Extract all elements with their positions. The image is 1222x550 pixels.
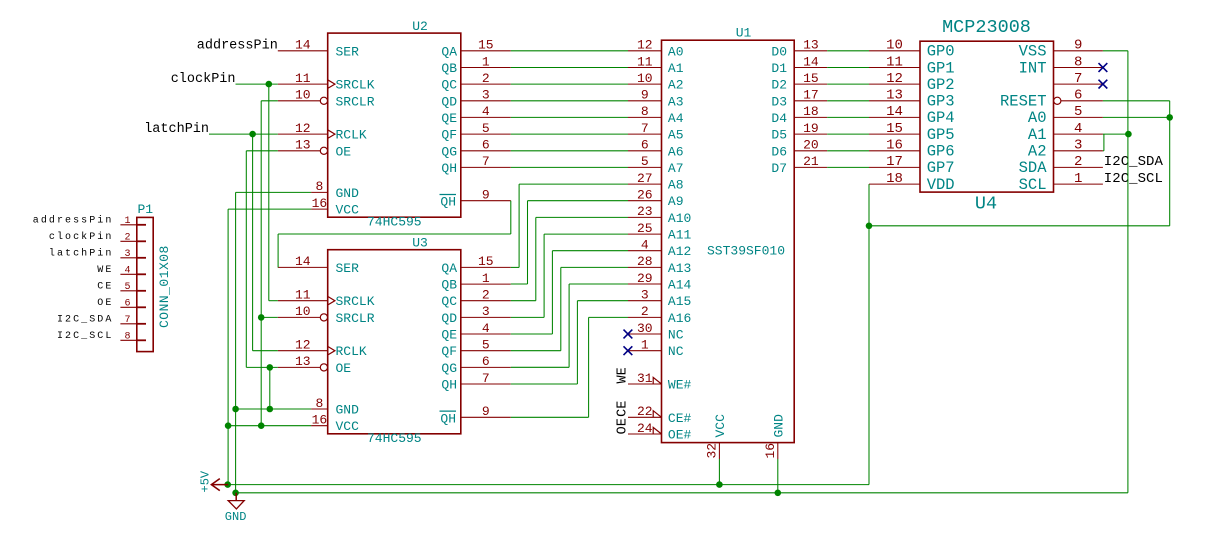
wire clockPin to U3 SRCLK bbox=[269, 300, 278, 302]
wire U3 GND horizontal bbox=[236, 408, 312, 410]
wire U2 QE to U1 A4 bbox=[511, 116, 628, 118]
junction U1 GND rail bbox=[775, 490, 782, 497]
svg-text:U3: U3 bbox=[412, 236, 428, 251]
svg-text:SCL: SCL bbox=[1019, 176, 1047, 194]
wire U3 QA horizontal bbox=[511, 266, 519, 268]
svg-text:addressPin: addressPin bbox=[197, 39, 278, 54]
U1 pin 28 A13 bbox=[628, 254, 691, 276]
svg-text:11: 11 bbox=[886, 54, 903, 70]
no-connect U4 pin 8 bbox=[1099, 63, 1108, 72]
U1 pin 16 GND bbox=[763, 414, 786, 459]
svg-text:OE: OE bbox=[97, 298, 113, 309]
svg-text:24: 24 bbox=[637, 421, 653, 436]
svg-text:A16: A16 bbox=[668, 311, 691, 326]
svg-text:32: 32 bbox=[705, 443, 720, 459]
wire U3 QC to U1 A10 bbox=[536, 216, 628, 218]
svg-text:12: 12 bbox=[295, 338, 311, 353]
U1 pin 19 D5 bbox=[771, 121, 827, 143]
svg-text:WE: WE bbox=[97, 265, 113, 276]
svg-text:QE: QE bbox=[441, 111, 457, 126]
U1 pin 14 D1 bbox=[771, 54, 827, 76]
U1 pin 2 A16 bbox=[628, 304, 691, 326]
junction VCC U3 row right bbox=[258, 422, 265, 429]
U4 pin 15 GP5 bbox=[869, 121, 955, 144]
wire U3 QH horizontal bbox=[511, 383, 578, 385]
svg-text:QG: QG bbox=[441, 361, 457, 376]
svg-text:A1: A1 bbox=[1028, 126, 1047, 144]
U1 pin 1 NC bbox=[628, 338, 684, 360]
svg-text:RCLK: RCLK bbox=[336, 128, 367, 143]
U4 pin 5 A0 bbox=[1028, 104, 1103, 127]
wire U3 QF to U1 A13 bbox=[561, 266, 628, 268]
svg-text:D4: D4 bbox=[771, 111, 787, 126]
svg-text:GP2: GP2 bbox=[927, 76, 955, 94]
svg-text:10: 10 bbox=[637, 71, 653, 86]
wire VDD tie horizontal bbox=[869, 225, 1170, 227]
junction latchPin/RCLK bbox=[249, 131, 256, 138]
U4 pin 3 A2 bbox=[1028, 138, 1103, 161]
svg-text:QH: QH bbox=[440, 411, 456, 426]
svg-text:QH: QH bbox=[440, 195, 456, 210]
svg-text:1: 1 bbox=[482, 271, 490, 286]
U1 pin 8 A4 bbox=[628, 104, 684, 126]
U1 pin 12 A0 bbox=[628, 38, 684, 60]
U3 value 74HC595 bbox=[367, 431, 422, 446]
net label WE (vertical) bbox=[616, 367, 631, 383]
svg-text:9: 9 bbox=[1074, 38, 1082, 54]
U1 pin 20 D6 bbox=[771, 138, 827, 160]
wire clockPin vertical bbox=[268, 84, 270, 301]
svg-text:1: 1 bbox=[1074, 171, 1082, 187]
svg-text:OE: OE bbox=[616, 418, 631, 434]
svg-text:15: 15 bbox=[478, 38, 494, 53]
P1 value CONN_01X08 bbox=[157, 245, 172, 328]
svg-text:5: 5 bbox=[124, 282, 130, 293]
U1 pin 23 A10 bbox=[628, 204, 691, 226]
svg-text:30: 30 bbox=[637, 321, 653, 336]
U1 pin 11 A1 bbox=[628, 54, 684, 76]
svg-text:19: 19 bbox=[803, 121, 819, 136]
svg-text:2: 2 bbox=[124, 232, 130, 243]
wire U2 VCC horizontal bbox=[228, 208, 311, 210]
svg-text:13: 13 bbox=[886, 88, 903, 104]
svg-text:3: 3 bbox=[641, 288, 649, 303]
U1 pin 31 WE# bbox=[628, 371, 692, 393]
wire U1 D0 to U4 GP0 bbox=[827, 50, 869, 52]
svg-text:A15: A15 bbox=[668, 294, 691, 309]
wire U3 VCC horizontal bbox=[228, 425, 311, 427]
wire U3 QF vertical bbox=[560, 267, 562, 350]
U4 pin 10 GP0 bbox=[869, 38, 955, 61]
U2 pin 5 QF bbox=[441, 121, 510, 143]
wire U2 QC to U1 A2 bbox=[511, 83, 628, 85]
U1 pin 5 A7 bbox=[628, 154, 684, 176]
wire latchPin to U3 RCLK bbox=[253, 350, 278, 352]
U1 pin 10 A2 bbox=[628, 71, 684, 93]
svg-text:MCP23008: MCP23008 bbox=[942, 17, 1031, 38]
svg-text:A9: A9 bbox=[668, 194, 684, 209]
U2 value 74HC595 bbox=[367, 214, 422, 229]
svg-text:12: 12 bbox=[637, 38, 653, 53]
svg-text:A2: A2 bbox=[1028, 143, 1047, 161]
svg-text:SER: SER bbox=[336, 44, 360, 59]
U4 pin 18 VDD bbox=[869, 171, 955, 194]
svg-text:A4: A4 bbox=[668, 111, 684, 126]
svg-text:QC: QC bbox=[441, 294, 457, 309]
U4 pin 17 GP7 bbox=[869, 154, 955, 177]
wire U3 QB vertical bbox=[527, 201, 529, 284]
P1 pin 8 bbox=[120, 331, 146, 342]
U2 pin 4 QE bbox=[441, 104, 510, 126]
wire U2 QH-bar to U3 SER bbox=[277, 234, 279, 267]
svg-text:5: 5 bbox=[1074, 104, 1082, 120]
svg-text:15: 15 bbox=[886, 121, 903, 137]
junction A1/VSS vertical bbox=[1125, 131, 1132, 138]
P1 pin 5 bbox=[120, 282, 146, 293]
svg-text:GND: GND bbox=[771, 414, 786, 438]
junction OE/GND bbox=[267, 406, 274, 413]
svg-text:I2C_SDA: I2C_SDA bbox=[1104, 154, 1164, 170]
U4 pin 1 SCL bbox=[1019, 171, 1103, 194]
net label I2C_SDA bbox=[1104, 154, 1164, 170]
U1 pin 18 D4 bbox=[771, 104, 827, 126]
svg-text:NC: NC bbox=[668, 328, 684, 343]
svg-text:14: 14 bbox=[803, 54, 819, 69]
svg-text:QC: QC bbox=[441, 78, 457, 93]
U3 pin 6 QG bbox=[441, 354, 510, 376]
U3 pin 4 QE bbox=[441, 321, 510, 343]
wire U3 QG horizontal bbox=[511, 366, 569, 368]
svg-text:9: 9 bbox=[482, 404, 490, 419]
svg-text:4: 4 bbox=[1074, 121, 1082, 137]
svg-text:6: 6 bbox=[482, 138, 490, 153]
U2 pin 9 QH-bar bbox=[440, 188, 511, 210]
svg-text:4: 4 bbox=[482, 104, 490, 119]
svg-text:10: 10 bbox=[295, 88, 311, 103]
junction SRCLR U3 bbox=[258, 314, 265, 321]
wire U3 QG to U1 A14 bbox=[569, 283, 628, 285]
P1 reference bbox=[138, 202, 154, 217]
svg-text:A11: A11 bbox=[668, 228, 692, 243]
svg-text:clockPin: clockPin bbox=[49, 231, 114, 243]
IC U2 74HC595 body bbox=[328, 33, 461, 217]
U2 pin 11 SRCLK bbox=[278, 71, 375, 93]
U4 pin 7 NC bbox=[1054, 71, 1103, 87]
svg-text:18: 18 bbox=[886, 171, 903, 187]
svg-text:74HC595: 74HC595 bbox=[367, 431, 422, 446]
svg-text:13: 13 bbox=[295, 138, 311, 153]
no-connect U1 pin 30 bbox=[624, 330, 633, 339]
wire U3 QH to U1 A15 bbox=[577, 300, 628, 302]
U1 pin 26 A9 bbox=[628, 188, 684, 210]
U3 pin 13 OE bbox=[278, 354, 352, 376]
wire U3 QH-bar horizontal bbox=[511, 416, 589, 418]
svg-text:QF: QF bbox=[441, 344, 457, 359]
wire U2 QH to U1 A7 bbox=[511, 166, 628, 168]
wire U2 GND horizontal bbox=[236, 191, 312, 193]
svg-text:1: 1 bbox=[482, 54, 490, 69]
wire U1 D6 to U4 GP6 bbox=[827, 150, 869, 152]
svg-text:D2: D2 bbox=[771, 78, 787, 93]
wire U4 VDD vertical bbox=[868, 184, 870, 226]
wire VDD down to +5V rail bbox=[868, 226, 870, 485]
U1 pin 6 A6 bbox=[628, 138, 684, 160]
wire U2 QB to U1 A1 bbox=[511, 67, 628, 69]
U3 pin 14 SER bbox=[278, 254, 359, 276]
svg-text:2: 2 bbox=[1074, 154, 1082, 170]
svg-text:QA: QA bbox=[441, 44, 457, 59]
svg-text:27: 27 bbox=[637, 171, 653, 186]
svg-text:1: 1 bbox=[641, 338, 649, 353]
wire GND rail bbox=[236, 492, 1128, 494]
svg-text:latchPin: latchPin bbox=[144, 122, 209, 137]
svg-text:GND: GND bbox=[336, 403, 360, 418]
svg-text:21: 21 bbox=[803, 154, 819, 169]
svg-text:GP6: GP6 bbox=[927, 143, 955, 161]
wire U1 D4 to U4 GP4 bbox=[827, 116, 869, 118]
svg-text:A6: A6 bbox=[668, 144, 684, 159]
svg-text:P1: P1 bbox=[138, 202, 154, 217]
wire GND vertical bbox=[235, 192, 237, 492]
svg-text:8: 8 bbox=[315, 179, 323, 194]
svg-text:11: 11 bbox=[637, 54, 653, 69]
no-connect U4 pin 7 bbox=[1099, 80, 1108, 89]
no-connect U1 pin 1 bbox=[624, 346, 633, 355]
U3 pin 16 VCC bbox=[311, 413, 359, 435]
svg-text:VSS: VSS bbox=[1019, 43, 1047, 61]
svg-text:31: 31 bbox=[637, 371, 653, 386]
svg-text:11: 11 bbox=[295, 71, 311, 86]
svg-text:GP4: GP4 bbox=[927, 109, 955, 127]
U1 pin 4 A12 bbox=[628, 238, 691, 260]
svg-text:QD: QD bbox=[441, 311, 457, 326]
svg-text:A7: A7 bbox=[668, 161, 684, 176]
svg-text:74HC595: 74HC595 bbox=[367, 214, 422, 229]
wire U1 D7 to U4 GP7 bbox=[827, 166, 869, 168]
svg-text:3: 3 bbox=[482, 88, 490, 103]
U3 pin 10 SRCLR bbox=[278, 304, 375, 326]
net label clockPin bbox=[171, 72, 236, 87]
svg-text:GP3: GP3 bbox=[927, 93, 955, 111]
svg-text:5: 5 bbox=[641, 154, 649, 169]
svg-text:4: 4 bbox=[482, 321, 490, 336]
svg-text:CE: CE bbox=[616, 401, 631, 417]
svg-text:A8: A8 bbox=[668, 178, 684, 193]
U1 pin 21 D7 bbox=[771, 154, 827, 176]
IC U3 74HC595 body bbox=[328, 250, 461, 434]
svg-text:9: 9 bbox=[641, 88, 649, 103]
wire U3 QH-bar vertical bbox=[588, 317, 590, 417]
wire U4 A2 horizontal bbox=[1103, 150, 1104, 152]
net label addressPin bbox=[197, 39, 278, 54]
svg-text:A1: A1 bbox=[668, 61, 684, 76]
svg-text:OE: OE bbox=[336, 361, 352, 376]
U1 pin 32 VCC bbox=[705, 414, 728, 459]
svg-text:2: 2 bbox=[641, 304, 649, 319]
wire U3 QC horizontal bbox=[511, 300, 536, 302]
svg-text:18: 18 bbox=[803, 104, 819, 119]
svg-text:28: 28 bbox=[637, 254, 653, 269]
wire U1 D2 to U4 GP2 bbox=[827, 83, 869, 85]
wire OE vertical bbox=[245, 151, 247, 368]
wire GND to U2 OE bbox=[246, 150, 277, 152]
svg-text:6: 6 bbox=[124, 298, 130, 309]
svg-text:WE#: WE# bbox=[668, 378, 692, 393]
svg-text:SRCLR: SRCLR bbox=[336, 94, 375, 109]
junction A0/RESET vertical bbox=[1166, 114, 1173, 121]
wire U3 QH-bar to U1 A16 bbox=[589, 316, 628, 318]
net label OE (vertical) bbox=[616, 418, 631, 434]
U1 pin 13 D0 bbox=[771, 38, 827, 60]
U2 pin 8 GND bbox=[311, 179, 359, 201]
svg-text:QE: QE bbox=[441, 328, 457, 343]
svg-text:7: 7 bbox=[641, 121, 649, 136]
U2 pin 15 QA bbox=[441, 38, 510, 60]
svg-text:GP5: GP5 bbox=[927, 126, 955, 144]
svg-text:SRCLK: SRCLK bbox=[336, 78, 375, 93]
U2 pin 6 QG bbox=[441, 138, 510, 160]
svg-text:7: 7 bbox=[124, 315, 130, 326]
U3 pin 3 QD bbox=[441, 304, 510, 326]
svg-text:SRCLK: SRCLK bbox=[336, 294, 375, 309]
U4 pin 14 GP4 bbox=[869, 104, 955, 127]
net label WE at P1 pin 4 bbox=[97, 265, 113, 276]
wire latchPin vertical bbox=[252, 134, 254, 351]
svg-text:clockPin: clockPin bbox=[171, 72, 236, 87]
wire U3 QB to U1 A9 bbox=[528, 200, 629, 202]
svg-text:SST39SF010: SST39SF010 bbox=[707, 244, 785, 259]
svg-text:QG: QG bbox=[441, 144, 457, 159]
U4 pin 13 GP3 bbox=[869, 88, 955, 111]
U1 pin 7 A5 bbox=[628, 121, 684, 143]
P1 pin 1 bbox=[120, 216, 146, 227]
svg-text:3: 3 bbox=[124, 249, 130, 260]
wire U3 QD to U1 A11 bbox=[544, 233, 628, 235]
svg-text:3: 3 bbox=[1074, 138, 1082, 154]
svg-text:A3: A3 bbox=[668, 94, 684, 109]
IC U1 SST39SF010 body bbox=[662, 40, 795, 442]
U1 pin 25 A11 bbox=[628, 221, 692, 243]
net label I2C_SCL at P1 pin 8 bbox=[57, 331, 113, 342]
U3 pin 9 QH-bar bbox=[440, 404, 511, 426]
U3 pin 7 QH bbox=[441, 371, 510, 393]
svg-text:GP1: GP1 bbox=[927, 59, 955, 77]
svg-text:8: 8 bbox=[124, 331, 130, 342]
svg-text:CE: CE bbox=[97, 282, 113, 293]
svg-text:10: 10 bbox=[295, 304, 311, 319]
wire U1 GND to GND rail bbox=[777, 459, 779, 493]
svg-text:CE#: CE# bbox=[668, 411, 692, 426]
svg-text:VDD: VDD bbox=[927, 176, 955, 194]
svg-text:D1: D1 bbox=[771, 61, 787, 76]
svg-text:RCLK: RCLK bbox=[336, 344, 367, 359]
svg-text:D6: D6 bbox=[771, 144, 787, 159]
svg-text:4: 4 bbox=[124, 265, 130, 276]
U4 reference bbox=[975, 194, 997, 215]
svg-text:RESET: RESET bbox=[1000, 93, 1047, 111]
svg-text:A10: A10 bbox=[668, 211, 691, 226]
U3 pin 1 QB bbox=[441, 271, 510, 293]
svg-text:13: 13 bbox=[295, 354, 311, 369]
wire U4 RESET horizontal bbox=[1103, 100, 1170, 102]
svg-text:7: 7 bbox=[1074, 71, 1082, 87]
svg-text:QH: QH bbox=[441, 378, 457, 393]
U3 pin 12 RCLK bbox=[278, 338, 367, 360]
U2 pin 7 QH bbox=[441, 154, 510, 176]
wire VCC to U3 SRCLR bbox=[261, 316, 278, 318]
wire clockPin label to U2 SRCLK bbox=[236, 83, 278, 85]
svg-text:QH: QH bbox=[441, 161, 457, 176]
junction clockPin/SRCLK bbox=[266, 81, 273, 88]
U1 pin 3 A15 bbox=[628, 288, 691, 310]
wire U3 QD horizontal bbox=[511, 316, 544, 318]
U1 pin 17 D3 bbox=[771, 88, 827, 110]
U1 pin 29 A14 bbox=[628, 271, 692, 293]
U2 pin 10 SRCLR bbox=[278, 88, 375, 110]
svg-text:GND: GND bbox=[336, 186, 360, 201]
svg-text:I2C_SCL: I2C_SCL bbox=[57, 331, 113, 342]
svg-text:29: 29 bbox=[637, 271, 653, 286]
wire U2 QF to U1 A5 bbox=[511, 133, 628, 135]
wire U2 QH-bar down bbox=[510, 201, 512, 234]
wire U3 QE horizontal bbox=[511, 333, 553, 335]
ground symbol GND bbox=[225, 493, 247, 524]
U4 pin 2 SDA bbox=[1019, 154, 1103, 177]
svg-text:addressPin: addressPin bbox=[33, 215, 114, 227]
net label latchPin bbox=[144, 122, 209, 137]
svg-text:QB: QB bbox=[441, 61, 457, 76]
svg-text:6: 6 bbox=[1074, 88, 1082, 104]
wire U4 A0 horizontal bbox=[1103, 116, 1170, 118]
svg-text:I2C_SDA: I2C_SDA bbox=[57, 315, 113, 326]
wire U4 VSS horizontal bbox=[1103, 50, 1128, 52]
U1 pin 30 NC bbox=[628, 321, 684, 343]
svg-text:A12: A12 bbox=[668, 244, 691, 259]
svg-text:15: 15 bbox=[803, 71, 819, 86]
svg-text:QF: QF bbox=[441, 128, 457, 143]
svg-text:15: 15 bbox=[478, 254, 494, 269]
U1 pin 24 OE# bbox=[628, 421, 692, 443]
svg-text:12: 12 bbox=[886, 71, 903, 87]
svg-text:16: 16 bbox=[763, 443, 778, 459]
svg-text:VCC: VCC bbox=[336, 419, 360, 434]
svg-text:3: 3 bbox=[482, 304, 490, 319]
U3 pin 11 SRCLK bbox=[278, 288, 375, 310]
wire SRCLR vertical bbox=[260, 101, 262, 426]
svg-text:A14: A14 bbox=[668, 278, 692, 293]
net label I2C_SDA at P1 pin 7 bbox=[57, 315, 113, 326]
svg-text:A0: A0 bbox=[668, 44, 684, 59]
wire VSS vertical bbox=[1127, 51, 1129, 493]
U2 reference bbox=[412, 19, 428, 34]
svg-text:SDA: SDA bbox=[1019, 159, 1048, 177]
U3 pin 2 QC bbox=[441, 288, 510, 310]
svg-text:16: 16 bbox=[312, 413, 328, 428]
wire U3 QA to U1 A8 bbox=[519, 183, 628, 185]
wire U1 D5 to U4 GP5 bbox=[827, 133, 869, 135]
wire OE to GND vertical bbox=[269, 367, 271, 409]
svg-text:GND: GND bbox=[225, 510, 247, 524]
svg-text:GP7: GP7 bbox=[927, 159, 955, 177]
wire U3 QG vertical bbox=[568, 284, 570, 367]
wire U1 VCC to +5V rail bbox=[718, 459, 720, 485]
svg-text:8: 8 bbox=[641, 104, 649, 119]
wire U3 QH vertical bbox=[576, 301, 578, 384]
U4 pin 8 INT bbox=[1019, 54, 1103, 77]
svg-text:U2: U2 bbox=[412, 19, 428, 34]
svg-text:QB: QB bbox=[441, 278, 457, 293]
svg-text:25: 25 bbox=[637, 221, 653, 236]
